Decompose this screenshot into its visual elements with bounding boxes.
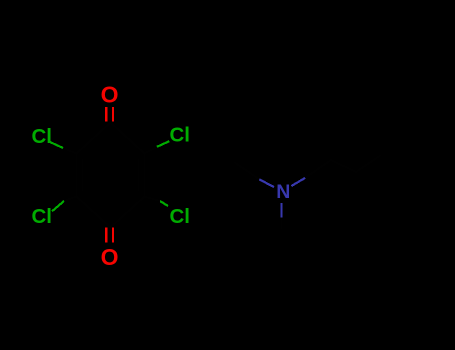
- svg-text:Cl: Cl: [32, 205, 53, 228]
- carbonyl double bond to top O (red half): [106, 107, 113, 122]
- carbonyl double bond to bottom O (red half): [106, 228, 113, 243]
- amine carbon skeleton (near-invisible): [234, 155, 381, 229]
- bond to Cl bottom-right (green half): [160, 201, 168, 206]
- svg-text:Cl: Cl: [170, 205, 191, 228]
- bond N down (blue half): [280, 203, 282, 218]
- ring double bond right: [138, 159, 140, 192]
- svg-text:N: N: [276, 181, 290, 203]
- carbonyl C=O top, carbon half (near-invisible): [106, 121, 113, 122]
- bond to Cl bottom-left (green half): [52, 201, 64, 211]
- chloranil ring (carbon skeleton, near-invisible): [77, 123, 145, 228]
- bond Cl bottom-left carbon half (near-invisible): [64, 197, 77, 202]
- bond Cl top-left carbon half (near-invisible): [63, 148, 77, 154]
- bond Cl top-right carbon half (near-invisible): [145, 147, 158, 154]
- bond to Cl top-left (green half): [50, 142, 63, 148]
- ring double bond left: [82, 159, 84, 192]
- bond to Cl top-right (green half): [157, 141, 169, 147]
- bond N up-right (blue half): [291, 178, 305, 186]
- bond N up-left (blue half): [259, 179, 274, 187]
- svg-text:Cl: Cl: [32, 125, 53, 148]
- svg-text:O: O: [101, 82, 119, 108]
- bond Cl bottom-right carbon half (near-invisible): [145, 197, 161, 202]
- svg-text:O: O: [101, 244, 119, 270]
- svg-text:Cl: Cl: [170, 123, 191, 146]
